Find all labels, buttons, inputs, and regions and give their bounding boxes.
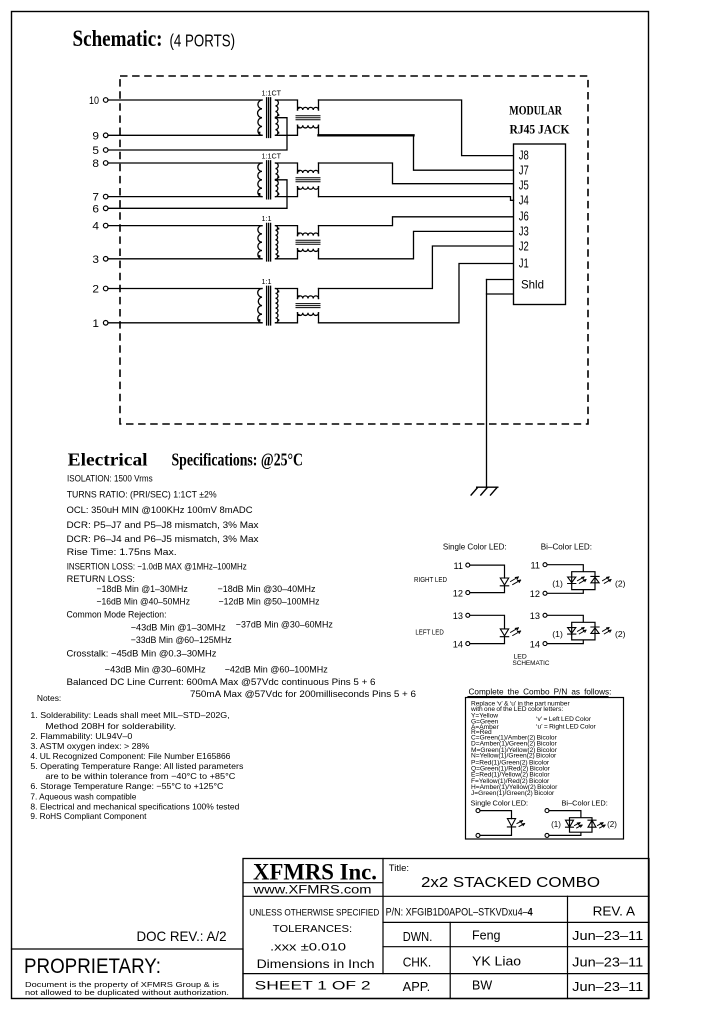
wire pin 1 to transformer primary: [108, 322, 262, 324]
svg-text:(1): (1): [552, 629, 563, 639]
wire pin 4 to transformer primary: [108, 225, 262, 227]
wire T2 secondary bottom to choke: [276, 187, 298, 197]
choke L2 bottom winding: [298, 187, 319, 190]
svg-text:OCL: 350uH MIN @100KHz 100mV 8: OCL: 350uH MIN @100KHz 100mV 8mADC: [67, 505, 253, 515]
pin 12 circle (bi-color): [543, 591, 547, 595]
pin 12 circle (single): [466, 591, 470, 595]
svg-text:12: 12: [453, 588, 463, 598]
svg-text:Jun–23–11: Jun–23–11: [572, 929, 643, 943]
wire pin 10 to transformer primary: [108, 99, 262, 101]
transformer T3 core: [267, 223, 271, 261]
wire choke L3 bottom output riser: [318, 249, 320, 259]
svg-text:J3: J3: [519, 224, 529, 239]
pin 13 circle (bi-color): [543, 613, 547, 617]
svg-text:Complete the Combo P/N as foll: Complete the Combo P/N as follows:: [469, 687, 612, 696]
wire choke L4 top output riser: [318, 289, 320, 299]
transformer T3 polarity dot primary: [258, 255, 260, 257]
svg-text:APP.: APP.: [403, 980, 431, 994]
svg-text:Feng: Feng: [472, 929, 501, 943]
wire choke L2 bottom output riser: [318, 187, 320, 197]
svg-text:J1: J1: [519, 256, 529, 271]
LED (1) arrows: [578, 628, 587, 634]
wire single LED loop pins 13/14: [470, 615, 505, 643]
svg-text:11: 11: [453, 561, 463, 571]
svg-text:RJ45 JACK: RJ45 JACK: [510, 122, 570, 136]
svg-text:9: 9: [92, 130, 99, 142]
pin 14 circle (bi-color): [543, 642, 547, 646]
svg-text:1:1: 1:1: [262, 277, 272, 286]
svg-text:Rise Time: 1.75ns Max.: Rise Time: 1.75ns Max.: [67, 547, 177, 557]
combo single LED top circle: [476, 809, 480, 813]
choke L1 top winding: [298, 107, 319, 110]
svg-text:4. UL Recognized Component: Fi: 4. UL Recognized Component: File Number …: [30, 751, 230, 761]
svg-text:14: 14: [453, 639, 463, 649]
transformer T4 primary winding: [258, 289, 262, 323]
svg-text:Common Mode Rejection:: Common Mode Rejection:: [67, 609, 167, 619]
LED (2) arrows: [603, 577, 612, 583]
svg-text:J7: J7: [519, 163, 529, 178]
LED (2) pins 11/12: [591, 576, 599, 582]
svg-text:YK Liao: YK Liao: [472, 954, 521, 968]
title block horizontal line under DWN row: [383, 946, 649, 948]
svg-text:Single Color LED:: Single Color LED:: [443, 543, 507, 552]
svg-text:12: 12: [530, 589, 540, 599]
choke L4 bottom winding: [298, 313, 319, 316]
choke L3 bottom winding: [298, 249, 319, 252]
logo underline: [243, 882, 383, 884]
svg-text:P/N: XFGIB1D0APOL–STKVDxu4–4: P/N: XFGIB1D0APOL–STKVDxu4–4: [386, 906, 534, 918]
pin 10 terminal circle: [103, 98, 108, 103]
choke L4 top winding: [298, 296, 319, 299]
transformer T1 polarity dot secondary top: [277, 114, 279, 116]
svg-text:DWN.: DWN.: [403, 930, 433, 944]
transformer T4 core: [267, 286, 271, 325]
svg-text:(2): (2): [615, 629, 626, 639]
pin 11 circle (single): [466, 563, 470, 567]
pin 6 terminal circle: [103, 206, 108, 211]
svg-text:5. Operating Temperature Range: 5. Operating Temperature Range: All list…: [30, 761, 243, 771]
LED (1) pins 13/14: [568, 628, 576, 635]
transformer T1 polarity dot primary: [258, 132, 260, 134]
svg-text:7: 7: [92, 192, 99, 204]
wire T3 secondary bottom to choke: [276, 249, 298, 259]
wire T2 secondary top to choke: [276, 163, 298, 173]
svg-text:(1): (1): [552, 578, 563, 588]
transformer T3 primary winding: [258, 226, 262, 259]
wire shield to ground: [486, 280, 488, 488]
svg-text:TOLERANCES:: TOLERANCES:: [273, 924, 353, 935]
title block vertical line DWN/names: [449, 922, 451, 998]
choke L4 dot bottom: [298, 314, 300, 316]
choke L3 core: [296, 240, 320, 244]
wire pin 8 to transformer primary: [108, 162, 262, 164]
choke L3 dot top: [298, 232, 300, 234]
wire pin 2 to transformer primary: [108, 288, 262, 290]
wire choke L3 top to J6: [319, 217, 514, 226]
svg-text:MODULAR: MODULAR: [509, 104, 562, 118]
svg-text:−33dB Min @60–125MHz: −33dB Min @60–125MHz: [131, 635, 232, 645]
svg-text:13: 13: [453, 611, 463, 621]
svg-text:6: 6: [92, 203, 99, 215]
svg-text:RETURN LOSS:: RETURN LOSS:: [67, 574, 135, 584]
combo single LED arrows: [517, 821, 525, 827]
svg-text:J=Green(1)/Green(2) Bicolor: J=Green(1)/Green(2) Bicolor: [471, 790, 555, 797]
ground chassis symbol: [471, 487, 498, 495]
svg-text:PROPRIETARY:: PROPRIETARY:: [24, 955, 161, 978]
pin 2 terminal circle: [103, 286, 108, 291]
svg-text:Dimensions in Inch: Dimensions in Inch: [257, 957, 375, 971]
svg-text:J5: J5: [519, 178, 529, 193]
title block vertical line logo/title: [382, 859, 384, 974]
svg-text:J6: J6: [519, 209, 529, 224]
transformer T2 primary winding: [258, 163, 262, 197]
transformer T4 polarity dot primary: [258, 319, 260, 321]
transformer T2 polarity dot primary: [258, 193, 260, 195]
svg-text:1. Solderability: Leads shall: 1. Solderability: Leads shall meet MIL–S…: [30, 710, 229, 720]
combo bi-color top circle: [545, 809, 549, 813]
svg-text:Method 208H for solderability.: Method 208H for solderability.: [45, 721, 176, 731]
wire choke L4 bottom to J1: [319, 264, 514, 323]
svg-text:BW: BW: [472, 979, 492, 993]
svg-text:8: 8: [92, 158, 99, 170]
combo single LED wire loop: [480, 811, 512, 836]
pin 7 terminal circle: [103, 194, 108, 199]
svg-text:‘u’ = Right LED Color: ‘u’ = Right LED Color: [536, 724, 597, 731]
transformer T4 secondary winding: [276, 289, 278, 323]
svg-text:9. RoHS Compliant Component: 9. RoHS Compliant Component: [30, 811, 147, 821]
svg-text:LEFT LED: LEFT LED: [415, 628, 443, 637]
svg-text:Crosstalk: −45dB Min @0.3–30MH: Crosstalk: −45dB Min @0.3–30MHz: [67, 648, 217, 658]
choke L4 core: [296, 304, 320, 308]
svg-text:Jun–23–11: Jun–23–11: [572, 980, 643, 994]
svg-text:J2: J2: [519, 239, 529, 254]
choke L3 top winding: [298, 233, 319, 236]
LED arrows pins 11/12: [511, 577, 521, 585]
svg-text:DCR: P6–J4 and P6–J5 mismatch,: DCR: P6–J4 and P6–J5 mismatch, 3% Max: [67, 534, 259, 544]
combo heading underline: [468, 696, 608, 698]
wire choke L2 top to J5: [319, 163, 514, 184]
svg-text:1:1CT: 1:1CT: [262, 88, 282, 97]
choke L1 core: [296, 116, 320, 120]
svg-text:2. Flammability: UL94V–0: 2. Flammability: UL94V–0: [30, 731, 132, 741]
wire pin 3 to transformer primary: [108, 258, 262, 260]
svg-text:J8: J8: [519, 148, 529, 163]
pin 11 circle (bi-color): [543, 563, 547, 567]
svg-text:6. Storage Temperature Range:: 6. Storage Temperature Range: −55°C to +…: [30, 781, 223, 791]
wire choke L4 top to J2: [319, 246, 514, 289]
svg-text:Bi–Color LED:: Bi–Color LED:: [541, 543, 592, 552]
svg-text:Notes:: Notes:: [37, 693, 61, 703]
pin 9 terminal circle: [103, 133, 108, 138]
svg-text:4: 4: [92, 221, 99, 233]
svg-text:Jun–23–11: Jun–23–11: [572, 956, 643, 970]
wire choke L2 top output riser: [318, 163, 320, 173]
transformer T2 polarity dot secondary bottom: [277, 193, 279, 195]
svg-text:Shld: Shld: [521, 277, 544, 291]
choke L2 dot bottom: [298, 188, 300, 190]
svg-text:5: 5: [92, 145, 99, 157]
svg-text:Electrical: Electrical: [68, 450, 148, 470]
svg-text:Bi–Color LED:: Bi–Color LED:: [562, 799, 608, 808]
LED arrows pins 13/14: [511, 628, 521, 636]
wire shield lower stub: [487, 293, 514, 295]
svg-text:1:1: 1:1: [262, 214, 272, 223]
wire choke L1 top to J8: [319, 100, 514, 156]
svg-text:Single Color LED:: Single Color LED:: [471, 799, 529, 808]
pin 5 terminal circle: [103, 148, 108, 153]
choke L1 dot top: [298, 107, 300, 109]
svg-text:Schematic:: Schematic:: [73, 26, 163, 52]
svg-text:13: 13: [530, 611, 540, 621]
svg-text:1:1CT: 1:1CT: [262, 151, 282, 160]
title block vertical line names/dates: [567, 896, 569, 998]
svg-text:SHEET 1 OF 2: SHEET 1 OF 2: [255, 979, 372, 993]
wire pin 7 to transformer primary: [108, 196, 262, 198]
transformer T2 core: [267, 161, 271, 199]
choke L4 dot top: [298, 295, 300, 297]
choke L1 bottom winding: [298, 125, 319, 128]
svg-text:7. Aqueous wash compatible: 7. Aqueous wash compatible: [30, 791, 136, 801]
transformer T1 polarity dot secondary bottom: [277, 132, 279, 134]
svg-text:Title:: Title:: [389, 863, 409, 874]
transformer T2 secondary winding upper half: [276, 163, 279, 179]
svg-text:SCHEMATIC: SCHEMATIC: [513, 660, 550, 667]
svg-text:1: 1: [92, 318, 99, 330]
choke L2 dot top: [298, 170, 300, 172]
transformer T3 polarity dot secondary top: [277, 228, 279, 230]
transformer T2 polarity dot secondary top: [277, 176, 279, 178]
wire pin 9 to transformer primary: [108, 134, 262, 136]
transformer T3 secondary winding: [276, 226, 278, 259]
transformer T1 primary winding: [258, 100, 262, 135]
transformer T1 secondary winding lower half: [276, 118, 279, 135]
svg-text:750mA Max @57Vdc for 200millis: 750mA Max @57Vdc for 200milliseconds Pin…: [190, 689, 416, 699]
transformer T2 secondary winding lower half: [276, 180, 279, 196]
svg-text:INSERTION LOSS: −1.0dB MAX @1M: INSERTION LOSS: −1.0dB MAX @1MHz–100MHz: [67, 561, 247, 571]
LED (2) pins 13/14: [591, 627, 599, 633]
dashed schematic boundary box: [120, 76, 588, 424]
svg-text:(2): (2): [615, 578, 626, 588]
wire T3 secondary top to choke: [276, 226, 298, 236]
svg-text:2: 2: [92, 284, 99, 296]
pin 3 terminal circle: [103, 257, 108, 262]
choke L2 top winding: [298, 170, 319, 173]
svg-text:are to be within tolerance fro: are to be within tolerance from −40°C to…: [45, 771, 235, 781]
svg-text:REV. A: REV. A: [593, 904, 636, 919]
svg-text:3. ASTM oxygen index: > 28%: 3. ASTM oxygen index: > 28%: [30, 741, 150, 751]
pin 13 circle (single): [466, 613, 470, 617]
choke L2 core: [296, 178, 320, 182]
wire bi-color frame pins 11/12: [547, 565, 595, 594]
LED (2) arrows: [603, 628, 612, 634]
svg-text:ISOLATION: 1500 Vrms: ISOLATION: 1500 Vrms: [67, 474, 153, 484]
svg-text:−12dB Min @50–100MHz: −12dB Min @50–100MHz: [219, 597, 320, 607]
wire T4 secondary bottom to choke: [276, 313, 298, 323]
svg-text:.xxx ±0.010: .xxx ±0.010: [270, 942, 346, 954]
wire T1 secondary bottom to choke: [276, 125, 298, 135]
title block horizontal line under CHK row: [243, 973, 649, 975]
svg-text:UNLESS OTHERWISE SPECIFIED: UNLESS OTHERWISE SPECIFIED: [249, 907, 379, 917]
svg-text:11: 11: [530, 560, 540, 570]
combo bi-color wire frame: [549, 811, 592, 836]
LED (1) arrows: [578, 577, 587, 583]
combo box outline: [466, 698, 624, 840]
svg-text:J4: J4: [519, 193, 529, 208]
combo bi-color LED (2): [588, 820, 596, 827]
svg-text:Specifications: @25°C: Specifications: @25°C: [172, 450, 304, 470]
wire choke L1 top output riser: [318, 100, 320, 110]
LED diode pins 11/12: [500, 578, 508, 586]
transformer T1 core: [267, 98, 271, 138]
svg-text:8. Electrical and mechanical s: 8. Electrical and mechanical specificati…: [30, 801, 239, 811]
wire shield upper stub: [487, 279, 514, 281]
LED (1) pins 11/12: [568, 577, 576, 584]
wire choke L3 bottom to J3: [319, 231, 514, 258]
svg-text:−43dB Min @1–30MHz: −43dB Min @1–30MHz: [131, 622, 226, 632]
title block horizontal line under row1: [243, 895, 649, 897]
svg-text:‘v’ = Left LED Color: ‘v’ = Left LED Color: [536, 716, 592, 723]
wire T2 center tap: [108, 180, 287, 209]
wire choke L3 top output riser: [318, 226, 320, 236]
svg-text:TURNS RATIO: (PRI/SEC) 1:1CT ±: TURNS RATIO: (PRI/SEC) 1:1CT ±2%: [67, 490, 217, 500]
combo bi-color LED (1) arrows: [575, 823, 583, 828]
transformer T4 polarity dot secondary top: [277, 291, 279, 293]
svg-text:DOC REV.: A/2: DOC REV.: A/2: [137, 928, 227, 944]
wire bi-color frame pins 13/14: [547, 615, 595, 643]
svg-text:www.XFMRS.com: www.XFMRS.com: [252, 883, 371, 897]
transformer T3 polarity dot secondary bottom: [277, 255, 279, 257]
LED diode pins 13/14: [500, 629, 508, 637]
svg-text:3: 3: [92, 254, 99, 266]
pin 14 circle (single): [466, 642, 470, 646]
wire single LED loop pins 11/12: [470, 565, 505, 593]
wire T1 center tap: [108, 118, 287, 150]
title block outline: [243, 859, 649, 999]
svg-text:DCR: P5–J7 and P5–J8 mismatch,: DCR: P5–J7 and P5–J8 mismatch, 3% Max: [67, 520, 259, 530]
svg-text:−18dB Min @1–30MHz: −18dB Min @1–30MHz: [97, 584, 189, 594]
svg-text:(1): (1): [551, 820, 561, 829]
svg-text:CHK.: CHK.: [403, 955, 432, 969]
wire T1 secondary top to choke: [276, 100, 298, 110]
svg-text:2x2 STACKED COMBO: 2x2 STACKED COMBO: [421, 874, 600, 891]
combo bi-color LED (1): [566, 820, 574, 827]
svg-text:(2): (2): [607, 820, 617, 829]
choke L1 dot bottom: [298, 127, 300, 129]
wire L1 bottom corner down to J7: [414, 135, 514, 170]
svg-text:not allowed to be duplicated w: not allowed to be duplicated without aut…: [25, 988, 229, 997]
svg-text:14: 14: [530, 639, 540, 649]
RJ45 jack outline U1: [514, 144, 566, 305]
wire choke L2 bottom to J4: [319, 197, 514, 201]
combo single LED symbol: [507, 819, 515, 827]
svg-text:−37dB Min @30–60MHz: −37dB Min @30–60MHz: [236, 619, 333, 629]
svg-text:−16dB Min @40–50MHz: −16dB Min @40–50MHz: [97, 597, 191, 607]
svg-text:10: 10: [89, 95, 99, 107]
wire choke L1 bottom to J7 (heavy): [319, 134, 414, 136]
pin 8 terminal circle: [103, 161, 108, 166]
pin 4 terminal circle: [103, 223, 108, 228]
svg-text:RIGHT LED: RIGHT LED: [414, 575, 447, 584]
svg-text:Balanced DC Line Current: 600: Balanced DC Line Current: 600mA Max @57V…: [67, 677, 376, 687]
wire choke L4 bottom output riser: [318, 313, 320, 323]
combo single LED bottom circle: [476, 833, 480, 837]
svg-text:−42dB Min @60–100MHz: −42dB Min @60–100MHz: [225, 665, 328, 675]
svg-text:−18dB Min @30–40MHz: −18dB Min @30–40MHz: [218, 584, 316, 594]
pin 1 terminal circle: [103, 321, 108, 326]
combo bi-color bottom circle: [545, 833, 549, 837]
svg-text:(4 PORTS): (4 PORTS): [170, 31, 236, 51]
wire choke L1 bottom output riser: [318, 125, 320, 135]
choke L3 dot bottom: [298, 250, 300, 252]
transformer T1 secondary winding upper half: [276, 100, 279, 117]
title block horizontal line under P/N row: [383, 921, 649, 923]
combo bi-color LED (2) arrows: [598, 823, 606, 828]
wire T4 secondary top to choke: [276, 289, 298, 299]
proprietary box: [12, 949, 244, 999]
transformer T4 polarity dot secondary bottom: [277, 319, 279, 321]
svg-text:−43dB Min @30–60MHz: −43dB Min @30–60MHz: [105, 665, 206, 675]
svg-text:XFMRS Inc.: XFMRS Inc.: [253, 860, 377, 885]
